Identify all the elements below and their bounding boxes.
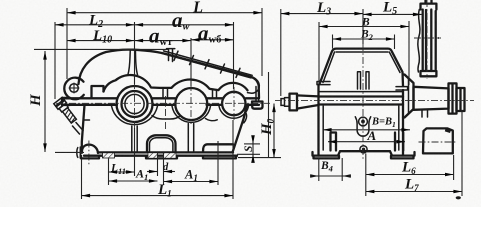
ext x281 shaft tip bbox=[280, 9, 282, 96]
ext line x67 bbox=[66, 8, 68, 79]
base bolt hole bbox=[360, 146, 367, 153]
cover slope double line bbox=[162, 51, 252, 78]
breather pillar at slope bbox=[167, 49, 175, 62]
pulley top cap bbox=[421, 1, 437, 10]
foot pad right rv bbox=[391, 156, 414, 159]
H0 bottom ext bbox=[238, 157, 281, 159]
ext x134.5 bottom bbox=[134, 128, 136, 176]
dim d arrows bbox=[147, 171, 158, 173]
dim L7 bbox=[366, 191, 462, 193]
ext B4 lines bbox=[318, 158, 320, 181]
bearing circle C1 mid bbox=[122, 91, 148, 117]
dim A1 first bbox=[109, 180, 158, 182]
lower boss arc C3 bbox=[219, 106, 249, 118]
lower boss arc C2 bbox=[172, 106, 211, 122]
ext x332.5 B2 bbox=[332, 35, 334, 49]
base bottom line bbox=[84, 155, 237, 157]
lower housing right wall bbox=[233, 105, 248, 152]
dim H vertical bbox=[44, 51, 46, 152]
hook lug right edge bbox=[248, 77, 260, 93]
svg-text:S: S bbox=[243, 146, 255, 152]
pulley bottom cap bbox=[421, 71, 437, 76]
ext x462 L7 bbox=[461, 110, 463, 196]
bearing circle C1 outer bbox=[117, 86, 153, 122]
flange band upper line bbox=[62, 97, 259, 99]
dim L3 bbox=[281, 13, 363, 15]
upper silhouette bosses and bridges bbox=[104, 75, 248, 91]
U-slot symbol bbox=[355, 117, 370, 136]
ext x218 bbox=[217, 158, 219, 185]
pad ticks bbox=[103, 152, 108, 157]
right wall bbox=[402, 90, 404, 156]
left foot arch bbox=[82, 145, 98, 153]
small support verticals bbox=[422, 111, 428, 118]
centerline C3 vertical bbox=[233, 87, 235, 120]
left wall boss bracket bbox=[77, 147, 80, 158]
pulley centerline vertical bbox=[426, 0, 428, 79]
ext line x233.5 top bbox=[233, 22, 235, 89]
ext x366 L6 bbox=[365, 154, 367, 197]
oil drain plug diagonal bbox=[54, 97, 78, 124]
main shaft through housing bbox=[319, 97, 404, 105]
fleck dot bbox=[456, 196, 461, 199]
C3 to wall join bbox=[244, 112, 247, 123]
cover slope ticks bbox=[174, 51, 240, 77]
base top line bbox=[98, 151, 233, 153]
coupling flange band bbox=[449, 83, 457, 113]
dim L10 bbox=[67, 40, 135, 42]
split line inside bbox=[319, 91, 404, 93]
foot pad left rv bbox=[314, 156, 340, 159]
ext x157.5 d bbox=[157, 159, 159, 177]
drain hole lines bbox=[158, 152, 164, 158]
left cover lip bbox=[317, 82, 330, 85]
pulley break edge bbox=[418, 10, 420, 73]
centerline horizontal left view bbox=[56, 102, 270, 104]
bridge rib C1-C2 bbox=[163, 88, 168, 98]
dim a_wt bbox=[135, 40, 192, 42]
shaft centerline horizontal bbox=[275, 99, 474, 101]
centerline C2 vertical bbox=[190, 84, 192, 124]
ear bolt hole bbox=[70, 84, 79, 93]
mystery ext line x268.5 bbox=[268, 72, 270, 158]
dim S bbox=[244, 143, 260, 145]
dim a_wb bbox=[191, 39, 234, 41]
step left of C1 boss bbox=[92, 86, 104, 98]
dim L5 bbox=[363, 13, 422, 15]
svg-text:В: В bbox=[361, 17, 370, 29]
foot pad left bbox=[81, 156, 99, 159]
right foot top bbox=[203, 144, 233, 152]
dim L11 bbox=[109, 171, 135, 173]
pulley centerline horizontal bbox=[414, 37, 441, 39]
drain arch outer bbox=[147, 135, 176, 152]
block centerline bbox=[419, 141, 457, 143]
input shaft small step bbox=[285, 98, 290, 107]
ext x108.5 bbox=[108, 159, 110, 186]
bolt bracket block bbox=[423, 128, 453, 153]
dim L2 bbox=[55, 24, 135, 26]
plug boss on wall bbox=[73, 120, 90, 134]
svg-text:L: L bbox=[192, 0, 203, 17]
input shaft taper bbox=[297, 95, 319, 108]
inner wall line right bbox=[398, 106, 400, 150]
bearing circle C1 inner bbox=[125, 94, 144, 113]
input shaft collar bbox=[290, 94, 298, 111]
housing centerline vertical bbox=[362, 44, 364, 161]
ext x409 B bbox=[408, 21, 410, 85]
lower saddle C2-C3 bbox=[206, 119, 218, 121]
output shaft taper bbox=[414, 87, 449, 110]
inner wall line left bbox=[322, 106, 324, 150]
H bottom ext bbox=[55, 151, 84, 153]
ext x453.5 L6 bbox=[453, 155, 455, 180]
right bearing cap bbox=[403, 75, 414, 118]
dim A row bbox=[323, 129, 410, 131]
ext x363 top bbox=[362, 9, 364, 44]
left wall bbox=[317, 85, 319, 156]
RIGHT VIEW bbox=[275, 0, 474, 199]
svg-text:H: H bbox=[28, 93, 44, 107]
lower bridge C1-C2 bbox=[152, 116, 180, 120]
flange band lower line bbox=[62, 104, 259, 106]
bearing circle C2 bbox=[175, 88, 207, 120]
svg-text:d: d bbox=[163, 162, 169, 173]
input shaft tip cap bbox=[281, 99, 285, 106]
foot pocket left bbox=[331, 133, 337, 151]
ext x163.5 d bbox=[163, 159, 165, 186]
aux dashdot x165.5 bbox=[165, 96, 167, 131]
dim L6 bbox=[366, 174, 454, 176]
flange tab left bbox=[62, 98, 70, 105]
ext line x190 top bbox=[190, 38, 192, 86]
lower boss arc C1 bbox=[112, 106, 158, 125]
right bearing cap mid line bbox=[408, 79, 410, 114]
hatched pad at L11 bbox=[103, 153, 115, 158]
rib under C2 bbox=[188, 124, 193, 152]
ext x81.5 bbox=[81, 159, 83, 199]
pulley center dot bbox=[438, 37, 440, 39]
ext line x134.5 top bbox=[134, 22, 136, 84]
bearing circle C3 bbox=[222, 92, 245, 115]
dim inner row unlabeled bbox=[328, 141, 405, 143]
ext x233 bottom bbox=[232, 120, 234, 199]
inner slope left bbox=[323, 52, 335, 83]
dim A1 second bbox=[164, 181, 219, 183]
rib under C1 bbox=[132, 126, 137, 152]
bridge rib C2-C3 bbox=[213, 90, 217, 98]
foot pocket right bbox=[395, 133, 403, 151]
dim a_w bbox=[135, 24, 234, 26]
base bottom profile bbox=[313, 151, 415, 155]
foot pad mid bbox=[146, 156, 177, 159]
dim H0 vertical bbox=[273, 104, 275, 158]
dim B bbox=[319, 26, 409, 28]
top cover inner line bbox=[336, 51, 388, 53]
drain arch inner bbox=[150, 138, 173, 153]
dim B2 bbox=[333, 38, 395, 40]
coupling step band bbox=[457, 88, 465, 111]
housing trapezoid top bbox=[320, 49, 404, 86]
left foot bolt centerline bbox=[88, 141, 90, 166]
lower housing left wall bbox=[82, 105, 85, 153]
cover joint pillar at apex bbox=[128, 50, 138, 75]
svg-text:А: А bbox=[367, 128, 377, 143]
ext line x262 bbox=[261, 8, 263, 76]
right flange tab bbox=[252, 102, 263, 109]
drain hatch right bbox=[164, 153, 177, 158]
right face double line bbox=[256, 86, 259, 101]
block corner mark bbox=[445, 129, 451, 133]
LEFT VIEW bbox=[54, 49, 270, 166]
ext line x55 bbox=[54, 22, 56, 99]
ear lug top-left bbox=[64, 78, 84, 100]
pulley body lines bbox=[423, 10, 436, 72]
inner slope right bbox=[389, 52, 400, 73]
centerline C1 vertical bbox=[134, 82, 136, 128]
DIMENSIONS bbox=[34, 8, 462, 199]
dim B4 bbox=[319, 175, 342, 177]
dim L1 bbox=[82, 195, 234, 197]
dim L bbox=[67, 12, 262, 14]
right foot bolt line bbox=[217, 141, 219, 158]
housing top cover arc bbox=[79, 50, 260, 98]
H top ext bbox=[34, 48, 168, 50]
inner pillar pair (dipstick) bbox=[358, 72, 370, 89]
drain hatch left bbox=[148, 153, 158, 158]
right cover lip bbox=[396, 87, 408, 90]
foot pad right bbox=[203, 156, 236, 159]
ext x319 B bbox=[318, 22, 320, 83]
ext x394.5 B2 bbox=[394, 35, 396, 50]
